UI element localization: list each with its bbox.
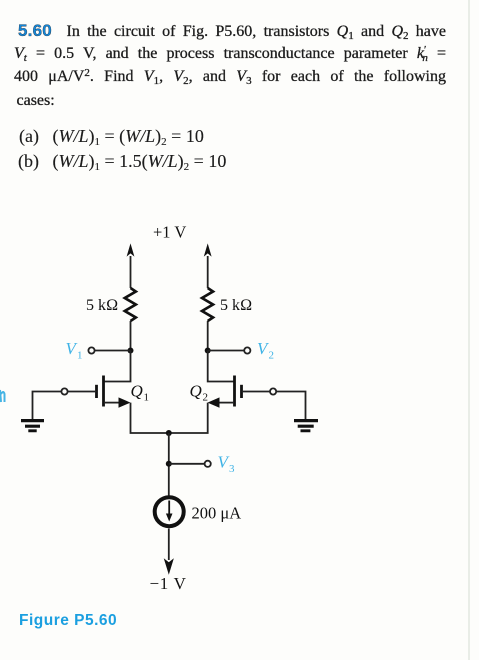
transistor Q1 [97, 376, 131, 408]
node V1 junction dot [128, 348, 134, 354]
case (a) [19, 126, 204, 147]
terminal V1 [88, 347, 94, 353]
tail junction dot [166, 430, 172, 436]
svg-text:+1 V: +1 V [153, 223, 186, 242]
wire current source to -1V arrow [168, 529, 170, 561]
wire source Q2 to tail [169, 403, 208, 433]
+1 V arrow right [204, 243, 212, 288]
+1 V arrow left [127, 243, 135, 288]
wire gate Q1 [33, 392, 97, 420]
wire drain Q1 [104, 351, 131, 382]
wire node V3 to terminal [169, 463, 205, 465]
label Q2 [190, 382, 209, 404]
ground right [294, 421, 318, 431]
problem text line 4 [17, 92, 55, 110]
problem text line 1 [14, 21, 446, 41]
svg-text:−1 V: −1 V [150, 574, 187, 593]
ground left [21, 421, 44, 431]
figure caption [19, 612, 117, 630]
node V3 junction dot [166, 461, 172, 467]
label Q1 [131, 382, 150, 404]
svg-text:Q: Q [190, 382, 202, 401]
svg-text:2: 2 [269, 350, 275, 362]
svg-text:5 kΩ: 5 kΩ [220, 297, 252, 314]
label V2 [257, 339, 274, 362]
wire node V2 to terminal [208, 350, 245, 352]
cyan text fragment at left page edge [0, 390, 5, 402]
wire resistor R2 to node V2 [207, 321, 209, 351]
svg-text:Q: Q [131, 382, 143, 401]
problem text line 2 [14, 45, 446, 63]
problem text line 3 [14, 68, 446, 86]
terminal gate Q2 [270, 388, 276, 394]
wire gate Q2 [242, 392, 306, 420]
svg-text:1: 1 [144, 392, 150, 404]
wire source Q1 to tail [131, 403, 169, 433]
wire resistor R1 to node V1 [130, 321, 132, 351]
page gutter line [468, 0, 470, 660]
node V2 junction dot [205, 348, 211, 354]
svg-text:200 μA: 200 μA [192, 504, 242, 523]
label V3 [218, 453, 236, 476]
current source value 200 uA [192, 504, 242, 523]
resistor R2 [202, 288, 213, 321]
case (b) [18, 151, 226, 172]
terminal V3 [205, 461, 211, 467]
resistor R2 value 5 kΩ [220, 297, 252, 314]
wire tail down [168, 433, 170, 496]
resistor R1 value 5 kΩ [86, 297, 118, 314]
-1 V supply label [150, 574, 187, 593]
terminal V2 [244, 347, 250, 353]
svg-text:5 kΩ: 5 kΩ [86, 297, 118, 314]
resistor R1 [125, 288, 136, 321]
wire node V1 to terminal [95, 350, 131, 352]
label V1 [66, 339, 83, 362]
svg-text:1: 1 [77, 350, 83, 362]
wire drain Q2 [208, 351, 234, 382]
svg-text:2: 2 [203, 392, 209, 404]
terminal gate Q1 [61, 388, 67, 394]
transistor Q2 [208, 376, 242, 408]
+1 V supply label [153, 223, 186, 242]
svg-text:3: 3 [229, 463, 235, 475]
-1 V arrow [165, 560, 173, 573]
current source I 200uA [155, 497, 184, 526]
